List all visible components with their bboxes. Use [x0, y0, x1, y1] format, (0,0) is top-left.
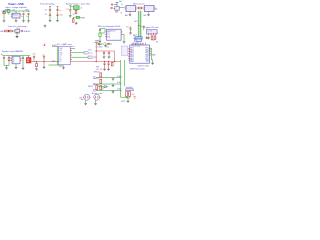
capacitor C7 — [22, 30, 23, 32]
mid caps between rails — [103, 51, 106, 58]
green bits right — [98, 87, 108, 90]
svg-text:SCL: SCL — [59, 55, 62, 57]
svg-text:C15 C16: C15 C16 — [96, 69, 102, 71]
U3 pin stubs — [125, 7, 137, 13]
svg-text:DOUT: DOUT — [121, 101, 126, 103]
power pin col1 — [49, 6, 51, 8]
svg-text:+3V3: +3V3 — [25, 10, 29, 12]
svg-text:PB10: PB10 — [145, 54, 149, 56]
svg-text:C18: C18 — [33, 54, 36, 56]
ground lower — [75, 22, 78, 25]
svg-text:3V3: 3V3 — [96, 66, 99, 68]
MCU right pin names — [145, 48, 149, 64]
lower group wire — [73, 17, 81, 19]
ground under C2 — [27, 20, 30, 23]
cap drops below rail: C15 — [104, 62, 106, 68]
svg-text:C13: C13 — [145, 28, 148, 30]
svg-text:C11: C11 — [106, 47, 109, 49]
svg-text:Power decoupling: Power decoupling — [40, 4, 54, 6]
hier pentagon row3 — [93, 90, 96, 91]
column 2 wire — [57, 7, 59, 20]
svg-text:SAMD21G18A: SAMD21G18A — [138, 64, 150, 67]
resistor R9 — [8, 57, 10, 60]
transistor Q1 — [114, 7, 120, 11]
capacitor C14 — [22, 57, 24, 58]
ground right of MCU — [151, 62, 154, 65]
svg-text:1u: 1u — [21, 16, 23, 18]
small red bits right — [134, 96, 136, 98]
junction dots — [36, 50, 115, 62]
ground right — [123, 40, 126, 43]
left small red mark — [81, 99, 83, 101]
ground J2 — [147, 36, 150, 39]
ground stub below col1 area — [44, 25, 47, 28]
hier pentagon row2 — [93, 83, 96, 84]
red rail vertical main — [95, 45, 97, 62]
box inner pin marks — [149, 33, 157, 34]
red rail upper horizontal — [96, 51, 114, 62]
ground J3 — [62, 66, 65, 69]
ground row1 — [112, 78, 115, 81]
svg-text:U3: U3 — [121, 4, 123, 6]
svg-text:C12: C12 — [126, 26, 129, 28]
wire C2 — [28, 15, 30, 20]
svg-text:PB00: PB00 — [145, 48, 149, 50]
cluster above rail left: cap — [33, 54, 36, 62]
MCU right pin stubs — [149, 48, 151, 55]
button row 3 wire — [97, 89, 122, 91]
column 1 wire — [49, 7, 51, 20]
lavender note box over verticals — [121, 46, 127, 56]
wire left stack — [100, 28, 105, 39]
svg-text:M2: M2 — [155, 9, 157, 11]
ground U4 — [147, 13, 150, 16]
ground row2 — [112, 84, 115, 87]
wire row — [4, 30, 15, 32]
red rail long horizontal — [31, 61, 120, 63]
resistor above — [96, 85, 98, 90]
pin stub right — [20, 30, 21, 32]
svg-text:RST: RST — [146, 61, 149, 63]
svg-text:PIEZO: PIEZO — [88, 86, 94, 88]
wire left with cap — [113, 4, 117, 6]
svg-text:INT: INT — [156, 41, 159, 43]
IC U5 small — [15, 29, 20, 33]
ground speaker — [22, 67, 25, 70]
ground bank — [127, 100, 130, 103]
button row 2 wire — [97, 83, 122, 85]
svg-text:R1: R1 — [67, 9, 69, 11]
bottom rail — [4, 64, 16, 67]
battery connector blob — [134, 37, 142, 43]
long green vertical pair — [139, 11, 141, 37]
green link box to IC1 — [119, 7, 124, 9]
svg-text:Battery charge + status LED: Battery charge + status LED — [66, 3, 90, 6]
ground col2 — [56, 19, 59, 22]
VBAT source cluster top — [94, 40, 106, 46]
svg-text:2k: 2k — [73, 14, 75, 16]
capacitor C3 — [49, 10, 51, 11]
svg-text:BAT: BAT — [1, 30, 4, 33]
IMU U6 body — [107, 29, 122, 40]
left cluster: cap C12 — [129, 27, 132, 35]
MCU top pin stubs — [133, 43, 146, 45]
svg-text:PB02: PB02 — [145, 51, 149, 53]
resistor R5 — [5, 30, 8, 32]
power flag — [116, 2, 119, 6]
fuse F1 — [3, 11, 6, 14]
green vertical right pair — [121, 60, 125, 97]
svg-text:Power + USB: Power + USB — [9, 3, 24, 6]
driver U3 — [126, 6, 136, 12]
wire from green vertical — [121, 96, 128, 98]
resistor row3 — [100, 86, 102, 90]
wire to gnd — [16, 33, 18, 35]
buzzer wire down — [85, 100, 87, 102]
small cap left — [111, 4, 112, 6]
svg-text:C3: C3 — [45, 10, 47, 12]
ground row3 — [112, 90, 115, 93]
svg-text:100n: 100n — [60, 14, 64, 16]
mic MK1 circle — [94, 94, 101, 100]
junction dot — [8, 30, 9, 31]
MCU left pin stubs — [128, 48, 130, 60]
svg-text:Qwiic I2C conn: Qwiic I2C conn — [147, 27, 159, 29]
ground left — [99, 40, 102, 43]
svg-text:PB03: PB03 — [145, 53, 149, 55]
amp top rail — [3, 56, 31, 58]
comp small green — [99, 33, 101, 36]
svg-text:1 2 3 4 5 6 7 8: 1 2 3 4 5 6 7 8 — [131, 46, 140, 48]
capacitor C13 — [3, 58, 5, 59]
driver U4 — [144, 6, 154, 12]
bottom small cluster 1 — [96, 43, 105, 48]
resistor bank R11 — [129, 92, 131, 97]
red vertical under Q1 — [116, 10, 118, 13]
svg-text:BTN_A: BTN_A — [94, 71, 100, 74]
ground under C1 — [22, 20, 25, 23]
ground — [16, 35, 19, 38]
capacitor C4 — [49, 14, 51, 15]
ground right of battery conn — [145, 36, 148, 39]
svg-text:PB01: PB01 — [145, 49, 149, 51]
ground under J1 — [3, 20, 6, 23]
wire: drop to regulator — [4, 11, 29, 20]
U8 inner text — [13, 58, 16, 64]
J3 right pin stubs — [70, 48, 72, 59]
wire loop top — [70, 6, 73, 10]
button row 1 wire — [97, 77, 122, 79]
wire under C20 — [69, 11, 71, 14]
lavender row — [126, 89, 133, 91]
connector J2 — [147, 30, 158, 34]
green vertical feed — [49, 47, 65, 66]
green stub above box — [16, 28, 18, 30]
mic wire down — [95, 100, 97, 102]
wires to hier labels — [72, 48, 88, 57]
amp U8 — [12, 56, 20, 64]
svg-text:R12: R12 — [132, 94, 135, 96]
svg-text:I2C + UART conn: I2C + UART conn — [57, 43, 72, 46]
U4 pin stubs — [143, 7, 155, 13]
small ground near source — [104, 44, 107, 47]
power pin col2 — [57, 6, 59, 8]
MCU left pin names — [130, 47, 134, 64]
buzzer BZ1 circle — [83, 94, 91, 100]
svg-text:IMU accelerometer 6DoF: IMU accelerometer 6DoF — [98, 25, 121, 28]
svg-text:SCL: SCL — [89, 50, 92, 52]
cluster above rail left: cap 2 — [42, 55, 45, 62]
ground mic — [94, 102, 97, 105]
red marks above battery conn greens — [138, 25, 142, 26]
ground U3 — [129, 13, 132, 16]
power arrow down — [44, 43, 46, 46]
charger U2 box — [74, 6, 80, 10]
capacitor C2 — [27, 13, 29, 14]
drop 1: resistor to gnd — [36, 62, 38, 64]
svg-text:PB11: PB11 — [145, 56, 149, 58]
pin stubs U1 — [11, 14, 21, 19]
regulator U1 — [12, 13, 20, 18]
pin top — [69, 5, 71, 7]
svg-text:BZ1: BZ1 — [80, 97, 83, 99]
ground col1 — [49, 19, 52, 22]
drop 2 gnd — [43, 62, 45, 66]
svg-text:C19: C19 — [42, 55, 45, 57]
resistor R6 — [9, 30, 12, 32]
wire: main 5V rail — [3, 10, 31, 12]
ground under U1 — [15, 19, 18, 22]
resistor row2 — [100, 79, 102, 83]
resistor row1 — [100, 73, 102, 77]
svg-text:RX: RX — [59, 59, 61, 61]
ground amp mid — [15, 66, 18, 69]
svg-text:INT: INT — [59, 61, 62, 63]
svg-text:U2: U2 — [80, 8, 82, 10]
resistor R4 between — [138, 7, 141, 9]
svg-text:SDA SCL: SDA SCL — [24, 30, 31, 33]
svg-text:VBAT: VBAT — [95, 40, 99, 43]
MCU U7 body — [130, 45, 150, 63]
tiny marks above right top pin — [71, 45, 73, 47]
hier label 2 — [88, 56, 98, 59]
wire bank — [127, 97, 130, 100]
svg-text:PB22: PB22 — [145, 58, 149, 60]
hier pentagon row1 — [93, 77, 96, 78]
svg-text:VIN: VIN — [59, 50, 62, 52]
svg-text:1u: 1u — [60, 10, 62, 12]
svg-text:C10 100n: C10 100n — [96, 47, 103, 49]
svg-text:1 2 3 4: 1 2 3 4 — [147, 31, 152, 33]
left cap stack C8 — [99, 30, 101, 31]
wire right gnd — [123, 34, 124, 40]
pull-ups R7 R8 — [151, 36, 153, 39]
wires between drivers — [137, 7, 143, 9]
red comp left — [111, 7, 113, 8]
wire C14 — [22, 58, 24, 67]
capacitor C6 — [56, 14, 58, 15]
svg-text:U5: U5 — [18, 28, 20, 30]
cap C16 — [108, 62, 110, 68]
resistor R2 — [75, 10, 77, 13]
resistor bank R10 — [126, 92, 128, 97]
bottom small cluster 2 — [106, 43, 112, 48]
ground charger — [69, 14, 72, 17]
capacitor C20 — [69, 10, 71, 11]
wire R2 — [75, 10, 77, 15]
svg-text:TX: TX — [59, 57, 61, 59]
svg-text:Motor drivers: Motor drivers — [133, 3, 145, 6]
small purple thing — [104, 86, 106, 88]
svg-text:1u: 1u — [26, 16, 28, 18]
U8 right pin marks — [11, 58, 22, 60]
svg-text:D2: D2 — [104, 43, 106, 45]
svg-text:PB23: PB23 — [145, 60, 149, 62]
svg-text:C4: C4 — [45, 14, 47, 16]
second left cluster cap — [143, 25, 148, 30]
red underline — [52, 46, 58, 48]
wire mcu right down to gnd — [149, 48, 152, 62]
svg-text:+: + — [21, 57, 22, 59]
LED D1 — [76, 16, 79, 18]
speaker SP1 red box — [26, 58, 31, 63]
J2 pin stubs — [149, 34, 157, 35]
resistor R3 — [72, 19, 74, 22]
svg-text:Speaker amp PAM8302: Speaker amp PAM8302 — [2, 50, 24, 53]
capacitor C1 — [22, 13, 24, 14]
resistor drop — [111, 62, 113, 63]
wire C13 — [3, 59, 5, 66]
U6 pin names — [107, 32, 111, 39]
green halo band — [138, 11, 142, 40]
ground buzzer — [84, 102, 87, 105]
capacitor C5 — [56, 10, 58, 11]
svg-text:4.7k: 4.7k — [152, 40, 155, 42]
J3 pin names inside left — [59, 48, 63, 63]
wire C1 — [23, 15, 25, 20]
wire R9 — [8, 61, 10, 66]
svg-text:IN+: IN+ — [13, 58, 16, 60]
connector J1 USB — [7, 10, 10, 13]
svg-text:R22: R22 — [115, 11, 118, 13]
hier label 1 — [84, 52, 93, 55]
U6 left pin stubs — [105, 32, 123, 37]
connector J3 body — [59, 46, 71, 65]
svg-text:SCL: SCL — [107, 34, 110, 36]
red mark in box — [16, 31, 18, 33]
ground amp left — [5, 67, 8, 70]
